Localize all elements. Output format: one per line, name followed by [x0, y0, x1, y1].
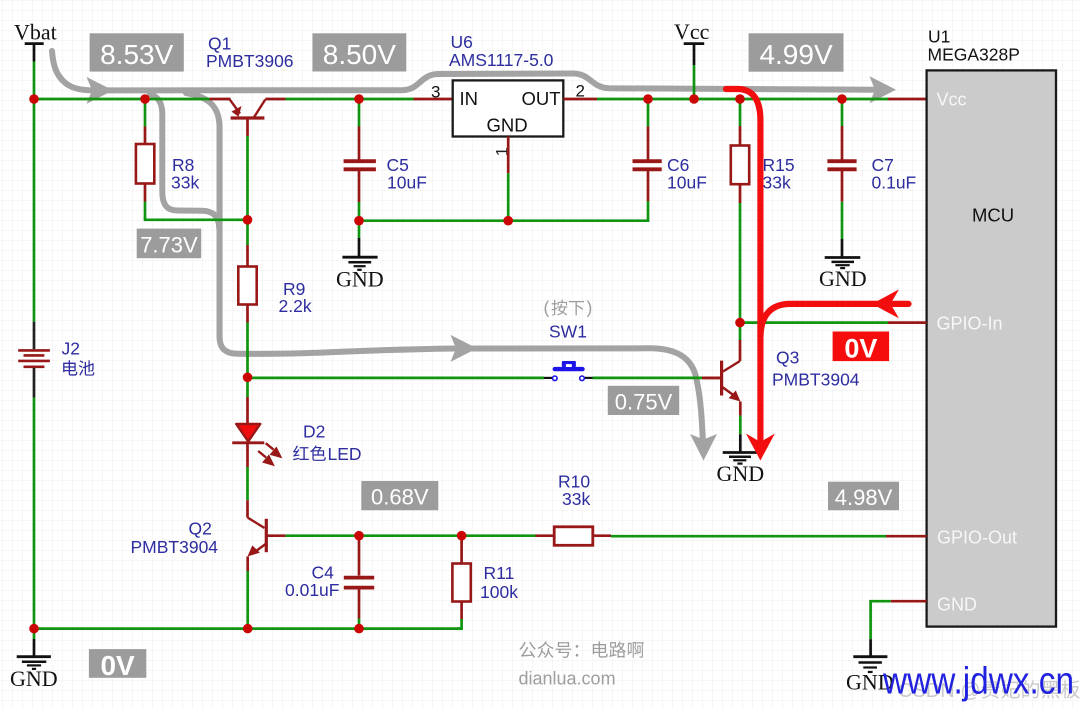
svg-text:Vcc: Vcc	[937, 89, 967, 109]
svg-text:IN: IN	[460, 88, 479, 109]
svg-text:R11: R11	[484, 563, 515, 583]
wire into U6 IN pin	[414, 98, 454, 101]
junction node (34,99)	[29, 94, 39, 104]
wire node 7.73V/R9 bottom to SW1	[248, 377, 545, 380]
ground symbol under Q3	[723, 434, 758, 463]
transistor Q3 PMBT3904 (NPN)	[702, 323, 741, 435]
junction node (694,99)	[689, 94, 699, 104]
wire R8 junction to Q1 emitter	[145, 98, 210, 101]
svg-text:OUT: OUT	[522, 88, 561, 109]
wire R15 node to MCU GPIO-In	[740, 321, 888, 324]
svg-text:3: 3	[431, 83, 440, 102]
svg-text:D2: D2	[303, 422, 325, 442]
wire C6 junction to Vcc junction	[648, 98, 694, 101]
ground symbol under C7	[825, 239, 861, 268]
junction node (359,535.7)	[354, 531, 364, 541]
junction node (740,322.6)	[735, 318, 745, 328]
red branch from MCU GPIO-In	[761, 304, 909, 336]
wire Vcc junction to R15 junction	[694, 98, 740, 101]
red current-flow path: Vcc rail down through Q3 to GND	[726, 89, 909, 444]
battery J2	[18, 322, 50, 398]
junction node (247.7,628.6)	[243, 624, 253, 634]
svg-text:LED: LED	[328, 444, 362, 464]
svg-text:0V: 0V	[844, 333, 877, 363]
wire R8 bottom to node 7.73V	[145, 217, 248, 220]
footer note 公众号：电路啊	[519, 642, 535, 658]
svg-text:SW1: SW1	[549, 321, 587, 341]
wire top rail Vbat junction to R8	[34, 98, 145, 101]
gray current-flow path: battery to MCU Vcc along top rail	[52, 51, 877, 442]
gray arrowhead near 8.53V	[87, 77, 114, 104]
node voltage label 0V at GPIO-In (red)	[833, 332, 890, 364]
ground symbol under C5	[342, 221, 377, 270]
LED D2 red	[232, 377, 280, 500]
junction node (842,99)	[837, 94, 847, 104]
wire U6 OUT to C6 junction	[597, 98, 648, 101]
resistor R10 33k (horizontal)	[536, 527, 612, 546]
svg-text:0.68V: 0.68V	[371, 485, 429, 510]
wire bottom ground rail	[34, 627, 462, 630]
svg-text:www.jdwx.cn: www.jdwx.cn	[882, 661, 1074, 703]
svg-text:Vbat: Vbat	[14, 20, 57, 45]
junction node (145,99)	[140, 94, 150, 104]
node voltage label 8.50V	[312, 33, 406, 71]
svg-text:PMBT3904: PMBT3904	[131, 537, 219, 557]
svg-text:MEGA328P: MEGA328P	[928, 44, 1020, 64]
junction node (508.2,220.7)	[503, 216, 513, 226]
node voltage label 8.53V	[90, 33, 184, 71]
ground symbol bottom-left	[17, 629, 51, 669]
svg-text:8.50V: 8.50V	[323, 39, 396, 70]
gray branch via R9 and SW1 to Q3	[186, 93, 703, 442]
resistor R11 100k	[452, 536, 470, 629]
transistor Q2 PMBT3904 (NPN mirrored)	[248, 500, 286, 628]
red arrowhead down at GND	[746, 434, 775, 461]
wire SW1 to Q3 base	[593, 377, 703, 380]
svg-text:GND: GND	[717, 461, 765, 486]
svg-text:33k: 33k	[763, 172, 791, 192]
svg-text:GND: GND	[336, 267, 384, 292]
svg-text:GPIO-Out: GPIO-Out	[937, 528, 1017, 548]
svg-text:4.99V: 4.99V	[759, 39, 832, 70]
red arrowhead pointing left at GPIO-In	[872, 289, 899, 318]
transistor Q1 PMBT3906 (PNP)	[210, 99, 286, 136]
svg-text:Vcc: Vcc	[674, 19, 710, 44]
svg-text:PMBT3906: PMBT3906	[206, 51, 294, 71]
svg-text:33k: 33k	[171, 172, 199, 192]
junction node (34,628.6)	[29, 624, 39, 634]
switch SW1	[544, 361, 593, 381]
op-amp U6 AMS1117-5.0 regulator box	[453, 80, 564, 136]
svg-text:J2: J2	[62, 339, 80, 359]
junction node (740,99)	[735, 94, 745, 104]
wire U6 GND pin down	[507, 137, 510, 174]
svg-text:0.1uF: 0.1uF	[872, 172, 917, 192]
gray arrowhead into MCU Vcc	[870, 76, 897, 103]
svg-text:7.73V: 7.73V	[140, 232, 198, 257]
resistor R15 33k	[731, 99, 749, 323]
gray arrowhead down to GND near Q3	[690, 434, 717, 461]
svg-text:33k: 33k	[562, 489, 590, 509]
svg-text:0V: 0V	[100, 650, 135, 681]
svg-text:Q2: Q2	[189, 518, 212, 538]
resistor R8 33k	[136, 99, 154, 219]
svg-text:GPIO-In: GPIO-In	[937, 313, 1003, 333]
wire R10 to MCU GPIO-Out	[611, 535, 886, 538]
wire Q1 base down to node 7.73V	[246, 136, 249, 220]
svg-text:4.98V: 4.98V	[835, 485, 893, 510]
wire ground bus C5 to C6 under U6	[359, 219, 649, 222]
svg-text:PMBT3904: PMBT3904	[772, 369, 860, 389]
svg-text:GND: GND	[937, 594, 977, 614]
wire Q1 collector to C5 junction	[286, 98, 360, 101]
node voltage label 0V (bottom)	[89, 649, 146, 681]
svg-text:100k: 100k	[480, 582, 518, 602]
svg-text:10uF: 10uF	[387, 172, 427, 192]
svg-text:MCU: MCU	[972, 204, 1014, 225]
wire C5 junction to U6 IN	[359, 98, 414, 101]
junction node (359,220.7)	[354, 216, 364, 226]
junction node (359,628.6)	[354, 624, 364, 634]
svg-text:): )	[587, 298, 593, 318]
wire MCU GND pin to ground	[871, 601, 927, 656]
gray arrowhead before SW1	[451, 335, 478, 362]
svg-text:8.53V: 8.53V	[100, 39, 173, 70]
wire battery to bottom-left GND junction	[33, 398, 36, 629]
svg-text:GND: GND	[10, 666, 58, 691]
node voltage label 0.68V	[361, 481, 438, 510]
resistor R9 2.2k	[238, 220, 256, 377]
ground symbol under MCU	[853, 657, 887, 672]
wire left rail Vbat down to battery	[33, 99, 36, 322]
MCU U1 MEGA328P box	[927, 70, 1056, 626]
node voltage label 0.75V	[608, 386, 679, 415]
svg-text:10uF: 10uF	[667, 172, 707, 192]
net Vcc power symbol	[684, 44, 705, 99]
junction node (247.5,219.8)	[243, 215, 253, 225]
junction node (461.6,535.7)	[457, 531, 467, 541]
svg-text:2.2k: 2.2k	[279, 296, 312, 316]
capacitor C6 10uF	[633, 99, 662, 221]
junction node (247.5,377.3)	[243, 373, 253, 383]
svg-text:GND: GND	[487, 115, 528, 136]
svg-text:AMS1117-5.0: AMS1117-5.0	[449, 50, 554, 70]
node voltage label 7.73V	[137, 229, 202, 259]
wire R15 junction to C7 junction	[740, 98, 842, 101]
svg-text:GND: GND	[819, 266, 867, 291]
junction node (648,99)	[643, 94, 653, 104]
svg-text:0.75V: 0.75V	[615, 389, 673, 414]
wire Q2 base to R10	[286, 534, 536, 537]
wire U6 OUT lead	[563, 98, 597, 101]
svg-text:0.01uF: 0.01uF	[285, 580, 339, 600]
wire C7 junction to MCU Vcc pin	[842, 98, 888, 101]
net Vbat power symbol	[25, 44, 44, 99]
svg-text:(: (	[544, 298, 550, 318]
node voltage label 4.99V	[749, 33, 844, 71]
junction node (359,99)	[354, 94, 364, 104]
capacitor C7 0.1uF	[827, 99, 856, 239]
capacitor C5 10uF	[344, 99, 376, 221]
capacitor C4 0.01uF	[344, 536, 374, 629]
node voltage label 4.98V	[828, 482, 899, 511]
svg-text:dianlua.com: dianlua.com	[519, 669, 616, 689]
svg-text:Q3: Q3	[776, 348, 799, 368]
gray branch through R8	[150, 94, 219, 228]
